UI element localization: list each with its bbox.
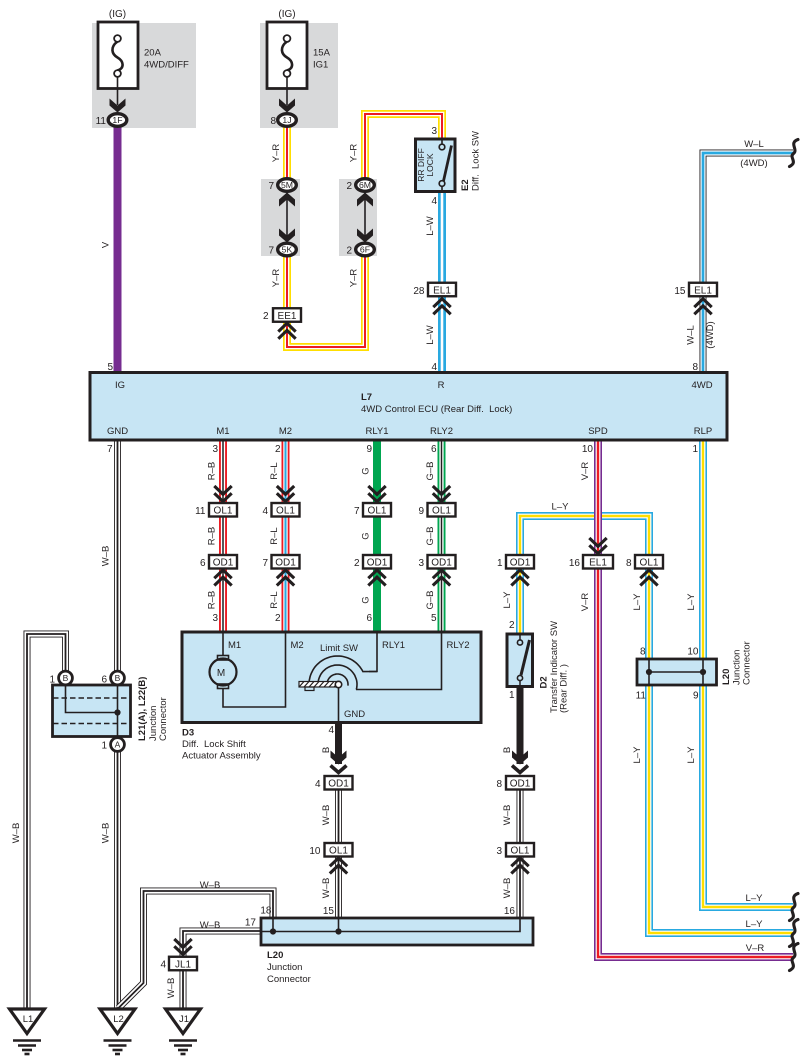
ground J1	[166, 1009, 201, 1054]
svg-text:Connector: Connector	[267, 974, 311, 985]
svg-text:M1: M1	[216, 426, 229, 437]
connector 2 OD1	[363, 555, 391, 569]
svg-text:Y–R: Y–R	[271, 269, 282, 288]
svg-text:OD1: OD1	[367, 558, 388, 569]
svg-text:1J: 1J	[282, 115, 291, 125]
svg-text:4: 4	[315, 779, 321, 790]
svg-text:10: 10	[687, 647, 699, 658]
svg-text:Y–R: Y–R	[271, 144, 282, 163]
svg-text:OL1: OL1	[511, 846, 530, 857]
svg-text:7: 7	[268, 181, 274, 192]
svg-text:OL1: OL1	[329, 846, 348, 857]
connector 11 OL1	[209, 503, 237, 517]
limit switch contact bar	[299, 681, 342, 690]
svg-text:W–B: W–B	[502, 878, 513, 899]
chevron into OL1 9	[433, 486, 450, 502]
connector 7 OD1	[272, 555, 300, 569]
wire B actuator GND to OD1	[335, 723, 342, 765]
svg-text:4WD Control ECU (Rear Diff. L: 4WD Control ECU (Rear Diff. Lock)	[361, 404, 512, 415]
svg-text:Y–R: Y–R	[349, 269, 360, 288]
svg-text:V–R: V–R	[580, 462, 591, 481]
svg-text:RLP: RLP	[694, 426, 712, 437]
chevron into 16 EL1	[589, 538, 606, 554]
chevron below OD1 6	[214, 570, 231, 586]
connector 28 EL1	[428, 283, 456, 297]
wire Y-R from 5K to EE1	[283, 251, 291, 309]
svg-text:4: 4	[431, 196, 437, 207]
ground L2	[100, 1009, 135, 1054]
svg-text:8: 8	[640, 647, 646, 658]
svg-text:OD1: OD1	[431, 558, 452, 569]
svg-text:(4WD): (4WD)	[705, 321, 716, 348]
wire W-B junction 1A to ground L2	[114, 752, 121, 1010]
svg-text:OL1: OL1	[276, 506, 295, 517]
svg-text:Connector: Connector	[158, 697, 169, 741]
wire W-B OL1 to junction L20 pin 16	[517, 857, 524, 919]
connector 6 OD1	[209, 555, 237, 569]
arrow into 5K	[279, 229, 295, 243]
break symbol W-L	[790, 140, 799, 167]
actuator internal GND lead	[338, 688, 340, 722]
svg-text:L7: L7	[361, 392, 372, 403]
svg-text:W–B: W–B	[502, 805, 513, 826]
svg-text:Diff. Lock Shift: Diff. Lock Shift	[182, 739, 246, 750]
arrow into 4 OD1	[331, 751, 347, 765]
svg-text:28: 28	[413, 286, 425, 297]
svg-text:RLY1: RLY1	[365, 426, 388, 437]
svg-text:OL1: OL1	[214, 506, 233, 517]
svg-text:L1: L1	[23, 1014, 34, 1025]
break symbol V-R	[790, 944, 799, 971]
svg-text:W–B: W–B	[101, 546, 112, 567]
svg-text:15: 15	[323, 906, 335, 917]
svg-text:Actuator Assembly: Actuator Assembly	[182, 751, 261, 762]
wire Y-R from 1J to 5M	[283, 126, 291, 180]
svg-text:G–B: G–B	[425, 590, 436, 609]
L21 internal wires	[66, 686, 118, 737]
svg-text:7: 7	[107, 444, 113, 455]
wire W-L EL1 to ECU 4WD	[700, 297, 707, 373]
svg-text:9: 9	[418, 506, 424, 517]
wire Y-R from 6M to E2 pin 3	[365, 114, 442, 180]
svg-text:G: G	[361, 596, 372, 603]
svg-text:L21(A), L22(B): L21(A), L22(B)	[137, 677, 148, 741]
wire W-B OD1 to OL1 middle	[335, 790, 342, 844]
wire R-L OD1 to actuator M2	[282, 569, 290, 633]
junction dot L20 pin 15	[335, 928, 341, 934]
connector ring B right	[111, 671, 125, 685]
svg-text:1: 1	[509, 690, 515, 701]
svg-text:4: 4	[160, 960, 166, 971]
connector 3 OD1	[428, 555, 456, 569]
motor M	[210, 656, 237, 689]
arrow into 1J	[279, 99, 295, 113]
connector ring B left	[59, 671, 73, 685]
svg-text:Junction: Junction	[267, 962, 302, 973]
svg-text:R–L: R–L	[269, 591, 280, 608]
connector 1F	[108, 114, 127, 127]
wire G-B ECU RLY2 to OL1	[438, 440, 446, 503]
arrow into 8 OD1	[512, 751, 528, 765]
svg-text:W–L: W–L	[744, 139, 764, 150]
connector 8 OL1	[635, 555, 663, 569]
link line 5M to 5K	[286, 192, 288, 243]
fuse F1 20A 4WD/DIFF	[98, 22, 138, 105]
svg-text:R–L: R–L	[269, 527, 280, 544]
junction dot L20 pin 18	[270, 928, 276, 934]
diff lock shift actuator D3 box	[182, 632, 481, 723]
svg-text:G–B: G–B	[425, 461, 436, 480]
L20 right internal wires	[649, 659, 703, 685]
svg-text:2: 2	[509, 620, 515, 631]
svg-text:L–Y: L–Y	[746, 893, 764, 904]
svg-text:B: B	[321, 747, 332, 753]
chevron below 3 OL1	[511, 858, 528, 874]
svg-text:4WD: 4WD	[691, 380, 712, 391]
actuator internal M1 lead	[222, 632, 224, 656]
svg-text:V–R: V–R	[746, 943, 765, 954]
svg-text:2: 2	[346, 246, 352, 257]
svg-text:3: 3	[212, 613, 218, 624]
svg-text:EL1: EL1	[694, 285, 712, 296]
connector 4 OL1	[272, 503, 300, 517]
junction dot L20 pin 10	[700, 669, 706, 675]
chevron into JL1	[174, 939, 191, 955]
svg-text:R: R	[438, 380, 445, 391]
connector 7 OL1	[363, 503, 391, 517]
svg-text:R–L: R–L	[269, 462, 280, 479]
chevron below 10 OL1	[330, 858, 347, 874]
svg-text:8: 8	[496, 779, 502, 790]
svg-text:M2: M2	[279, 426, 292, 437]
svg-text:Diff. Lock SW: Diff. Lock SW	[471, 131, 482, 191]
svg-text:W–B: W–B	[200, 880, 221, 891]
svg-text:G–B: G–B	[425, 526, 436, 545]
svg-text:15: 15	[674, 286, 686, 297]
ground L1	[10, 1009, 45, 1054]
svg-text:W–B: W–B	[321, 878, 332, 899]
wire L-Y OL1 to junction L20 pin 8	[645, 569, 653, 660]
svg-text:3: 3	[496, 846, 502, 857]
wire G ECU RLY1 to OL1	[373, 440, 381, 503]
diff lock switch E2 box	[416, 139, 456, 192]
wire G OD1 to actuator RLY1	[373, 569, 381, 633]
svg-text:L–Y: L–Y	[632, 746, 643, 764]
wire R-L OL1 to OD1	[282, 517, 290, 556]
svg-text:17: 17	[245, 918, 257, 929]
wire W-B OD1 to OL1 right	[517, 790, 524, 844]
svg-text:7: 7	[354, 506, 360, 517]
svg-text:16: 16	[504, 906, 516, 917]
connector 5K	[278, 243, 297, 256]
connector 8 OD1	[506, 776, 534, 790]
arrow into 6F	[357, 229, 373, 243]
svg-text:2: 2	[275, 444, 281, 455]
svg-text:11: 11	[636, 691, 647, 702]
svg-text:(IG): (IG)	[109, 9, 126, 20]
junction connector L21/L22 box	[53, 685, 131, 737]
chevron into 15 EL1	[694, 299, 711, 314]
svg-text:Connector: Connector	[742, 641, 753, 685]
svg-text:Y–R: Y–R	[349, 144, 360, 163]
svg-text:1: 1	[692, 444, 698, 455]
svg-text:2: 2	[263, 311, 269, 322]
wire G-B OL1 to OD1	[438, 517, 446, 556]
wire W-B JL1 to ground J1	[180, 971, 187, 1009]
wire W-B junction L20 pin 18 to ground L2	[119, 891, 274, 1008]
svg-text:V: V	[101, 241, 112, 248]
connector 6F	[356, 243, 375, 256]
svg-text:1F: 1F	[112, 115, 122, 125]
svg-text:R–B: R–B	[207, 462, 218, 480]
svg-text:L20: L20	[721, 669, 732, 685]
svg-text:OD1: OD1	[328, 779, 349, 790]
wire L-Y branch OD1 to OL1 horizontal	[520, 516, 649, 555]
actuator internal RLY1 lead to limit switch	[369, 632, 377, 672]
svg-text:M2: M2	[291, 640, 304, 651]
svg-text:L–W: L–W	[425, 325, 436, 345]
wire R-B ECU M1 to OL1	[219, 440, 227, 503]
svg-text:OD1: OD1	[275, 558, 296, 569]
svg-text:L–Y: L–Y	[746, 919, 764, 930]
svg-text:L2: L2	[113, 1014, 124, 1025]
svg-text:2: 2	[346, 181, 352, 192]
arrow into 5M	[279, 193, 295, 207]
chevron into OL1 7	[368, 486, 385, 502]
chevron into OL1 11	[214, 486, 231, 502]
connector 10 OL1	[325, 843, 353, 857]
svg-text:6: 6	[101, 675, 107, 686]
junction dot L21	[114, 709, 120, 715]
svg-text:5M: 5M	[281, 180, 293, 190]
arrow into 1F	[110, 99, 126, 113]
svg-text:(IG): (IG)	[278, 9, 295, 20]
wire G OL1 to OD1	[373, 517, 381, 556]
connector 2 EE1	[273, 308, 301, 322]
connector ring A	[111, 738, 125, 752]
actuator internal motor to M2 lead	[223, 632, 286, 707]
wire W-B OL1 to junction L20 pin 15	[335, 857, 342, 919]
connector 6M	[356, 179, 375, 192]
wire Y-R from EE1 to 6F	[287, 251, 365, 347]
wire L-Y OD1 to D2 pin 2	[516, 569, 524, 635]
fuse block background 2	[260, 23, 338, 128]
svg-text:4: 4	[328, 725, 334, 736]
svg-text:10: 10	[309, 846, 321, 857]
connector 9 OL1	[428, 503, 456, 517]
svg-text:6M: 6M	[359, 180, 371, 190]
svg-text:16: 16	[569, 558, 581, 569]
svg-text:RLY1: RLY1	[382, 640, 405, 651]
svg-text:OL1: OL1	[368, 506, 387, 517]
wire V-R EL1 to break bottom right	[598, 569, 793, 958]
connector 16 EL1	[583, 555, 613, 569]
break symbol L-Y 1	[790, 894, 799, 921]
L21 dashed separators	[53, 698, 130, 724]
arrow into 6M	[357, 193, 373, 207]
svg-text:3: 3	[418, 558, 424, 569]
svg-text:3: 3	[431, 126, 437, 137]
fuse block background 1	[92, 23, 196, 128]
svg-text:OD1: OD1	[510, 558, 531, 569]
junction dot L20 pin 8	[646, 669, 652, 675]
wire R-L ECU M2 to OL1	[282, 440, 290, 503]
svg-text:1: 1	[497, 558, 503, 569]
svg-text:OD1: OD1	[213, 558, 234, 569]
svg-text:L–Y: L–Y	[686, 746, 697, 764]
chevron below OD1 2	[368, 570, 385, 586]
svg-text:B: B	[63, 673, 69, 683]
svg-text:6: 6	[366, 613, 372, 624]
connector 1 OD1	[506, 555, 534, 569]
svg-text:L–Y: L–Y	[686, 593, 697, 611]
wire V from 1F to ECU IG	[114, 127, 122, 373]
E2 switch contacts	[439, 139, 451, 192]
svg-text:L–Y: L–Y	[552, 502, 570, 513]
chevron into 28 EL1	[433, 299, 450, 314]
chevron below 1 OD1	[511, 570, 528, 586]
svg-text:RLY2: RLY2	[430, 426, 453, 437]
svg-text:D3: D3	[182, 728, 194, 739]
link line 6M to 6F	[364, 192, 366, 243]
wire L-Y junction L20 pin 9 to break	[703, 685, 793, 907]
svg-text:2: 2	[275, 613, 281, 624]
connector block background 5M/5K	[261, 179, 300, 256]
svg-text:7: 7	[268, 246, 274, 257]
chevron below 8 OL1	[640, 570, 657, 586]
wire R-B OL1 to OD1	[219, 517, 227, 556]
connector 1J	[278, 114, 297, 127]
connector 5M	[278, 179, 297, 192]
svg-text:EL1: EL1	[433, 285, 451, 296]
svg-text:B: B	[115, 673, 121, 683]
svg-text:5K: 5K	[282, 245, 293, 255]
svg-text:GND: GND	[107, 426, 128, 437]
break symbol L-Y 2	[790, 920, 799, 947]
svg-text:M1: M1	[228, 640, 241, 651]
svg-text:EL1: EL1	[589, 558, 607, 569]
wire L-Y ECU RLP to junction L20 pin 10	[699, 440, 707, 659]
svg-text:4WD/DIFF: 4WD/DIFF	[144, 60, 189, 71]
svg-text:OL1: OL1	[640, 558, 659, 569]
svg-text:5: 5	[431, 613, 437, 624]
svg-text:6F: 6F	[360, 245, 370, 255]
svg-text:W–B: W–B	[321, 805, 332, 826]
svg-text:IG1: IG1	[313, 60, 328, 71]
svg-text:LOCK: LOCK	[425, 153, 435, 176]
svg-text:R–B: R–B	[207, 527, 218, 545]
svg-text:R–B: R–B	[207, 591, 218, 609]
L20 bottom internal wires	[261, 918, 520, 932]
connector 3 OL1	[506, 843, 534, 857]
connector 4 OD1	[325, 776, 353, 790]
wire W-B ECU GND to junction 6B	[114, 440, 121, 671]
connector 15 EL1	[689, 283, 717, 297]
svg-text:G: G	[361, 467, 372, 474]
chevron below OD1 7	[277, 570, 294, 586]
svg-text:1: 1	[49, 675, 55, 686]
transfer indicator switch D2 box	[507, 634, 533, 687]
svg-text:11: 11	[195, 506, 206, 517]
svg-text:V–R: V–R	[580, 593, 591, 612]
chevron into OL1 4	[277, 486, 294, 502]
connector block background 6M/6F	[339, 179, 377, 256]
svg-text:L–W: L–W	[425, 216, 436, 236]
fuse F2 15A IG1	[267, 22, 307, 105]
wire W-B junction L20 pin 17 to JL1	[183, 931, 261, 956]
svg-text:2: 2	[354, 558, 360, 569]
svg-text:18: 18	[260, 906, 272, 917]
limit switch arcs	[309, 656, 377, 690]
chevron into EE1	[278, 323, 295, 339]
svg-text:11: 11	[96, 116, 107, 127]
svg-text:RLY2: RLY2	[447, 640, 470, 651]
svg-text:W–B: W–B	[200, 920, 221, 931]
wire V-R ECU SPD to EL1	[594, 440, 602, 555]
svg-text:6: 6	[431, 444, 437, 455]
actuator internal RLY2 lead to limit switch	[356, 632, 442, 690]
4WD control ECU L7 box	[90, 373, 727, 441]
junction connector L20 bottom box	[261, 918, 533, 945]
svg-text:10: 10	[582, 444, 594, 455]
svg-text:E2: E2	[460, 179, 471, 191]
svg-text:9: 9	[366, 444, 372, 455]
svg-text:L–Y: L–Y	[632, 593, 643, 611]
chevron below OD1 3	[433, 570, 450, 586]
svg-text:8: 8	[626, 558, 632, 569]
junction connector L20 right box	[637, 659, 717, 685]
svg-text:L20: L20	[267, 950, 283, 961]
svg-text:W–B: W–B	[11, 823, 22, 844]
svg-text:JL1: JL1	[175, 959, 192, 970]
svg-text:OD1: OD1	[510, 779, 531, 790]
wire W-B junction 1B to ground L1	[27, 634, 66, 1009]
svg-text:OL1: OL1	[432, 506, 451, 517]
wire W-L from break to EL1	[703, 153, 793, 283]
svg-text:15A: 15A	[313, 48, 331, 59]
svg-text:W–L: W–L	[686, 325, 697, 345]
svg-text:(Rear Diff. ): (Rear Diff. )	[559, 664, 570, 713]
svg-text:W–B: W–B	[101, 823, 112, 844]
wire L-W EL1 to ECU R	[438, 297, 446, 373]
wire B D2 pin 1 to OD1	[517, 686, 524, 764]
svg-text:9: 9	[693, 691, 699, 702]
svg-text:B: B	[502, 747, 513, 753]
svg-text:6: 6	[200, 558, 206, 569]
svg-text:8: 8	[270, 116, 276, 127]
svg-text:W–B: W–B	[166, 978, 177, 999]
svg-text:SPD: SPD	[588, 426, 608, 437]
svg-text:J1: J1	[179, 1014, 189, 1025]
connector 4 JL1	[169, 957, 197, 971]
svg-text:D2: D2	[539, 676, 550, 688]
svg-text:EE1: EE1	[278, 311, 297, 322]
svg-text:3: 3	[212, 444, 218, 455]
svg-text:7: 7	[262, 558, 268, 569]
wire L-Y junction L20 pin 11 to break	[649, 685, 793, 933]
svg-text:20A: 20A	[144, 48, 162, 59]
svg-text:GND: GND	[344, 709, 365, 720]
svg-text:IG: IG	[115, 380, 125, 391]
svg-text:A: A	[115, 740, 121, 750]
wire R-B OD1 to actuator M1	[219, 569, 227, 633]
svg-text:Limit SW: Limit SW	[320, 643, 358, 654]
wire G-B OD1 to actuator RLY2	[438, 569, 446, 633]
svg-text:M: M	[217, 668, 225, 679]
svg-text:G: G	[361, 532, 372, 539]
D2 switch contacts	[517, 634, 529, 687]
svg-text:(4WD): (4WD)	[740, 158, 767, 169]
